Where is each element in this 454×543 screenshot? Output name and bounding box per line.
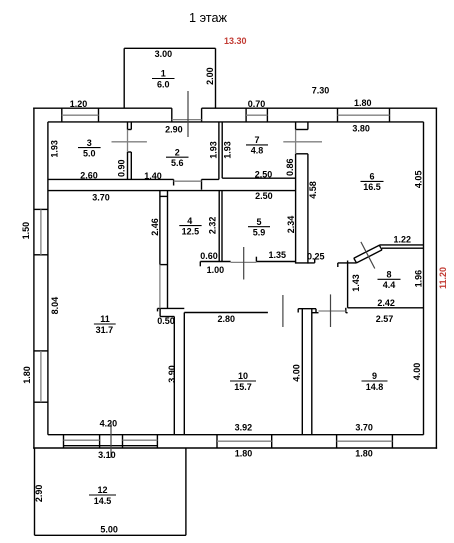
svg-text:1.93: 1.93	[49, 140, 59, 158]
svg-text:14.5: 14.5	[94, 496, 112, 506]
svg-text:6: 6	[369, 172, 374, 182]
porch room 1 walls	[124, 48, 215, 108]
garage door mid lines	[64, 439, 100, 441]
left wall window 1.80 caps	[34, 351, 48, 402]
wall below room 7	[222, 177, 295, 179]
wall rooms 11|4	[160, 191, 168, 309]
room 2 label	[166, 147, 189, 168]
dark door leaf strokes	[111, 91, 375, 458]
svg-text:1.80: 1.80	[235, 448, 253, 458]
svg-text:6.0: 6.0	[157, 79, 170, 89]
svg-text:2.42: 2.42	[377, 298, 395, 308]
door leaf rooms 7|6	[283, 141, 322, 143]
wall rooms 7,5 | 6	[296, 122, 308, 264]
svg-text:5.9: 5.9	[253, 228, 266, 238]
window 1.80 glazing top	[338, 114, 390, 116]
bottom wall rooms 4,5 with doors	[200, 257, 295, 267]
svg-text:1.20: 1.20	[70, 99, 88, 109]
room 6 label	[361, 172, 384, 193]
svg-text:5.6: 5.6	[171, 158, 184, 168]
diagonal door leaf room 8	[361, 242, 375, 269]
svg-text:5: 5	[256, 217, 261, 227]
dimension labels horizontal	[70, 49, 411, 535]
partition rooms 2|7	[219, 122, 222, 179]
window 1.80 glazing bottom room 9	[337, 440, 393, 442]
partition rooms 3|2	[128, 122, 132, 179]
svg-text:1.40: 1.40	[144, 171, 162, 181]
svg-text:5.0: 5.0	[83, 148, 96, 158]
svg-text:15.7: 15.7	[234, 382, 252, 392]
svg-text:1.50: 1.50	[21, 222, 31, 240]
garage door leaf	[110, 424, 112, 458]
svg-text:2.80: 2.80	[218, 314, 236, 324]
door sill room 5	[231, 261, 257, 263]
svg-text:3.70: 3.70	[92, 192, 110, 202]
svg-text:2.00: 2.00	[205, 67, 215, 85]
svg-text:3.80: 3.80	[352, 124, 370, 134]
svg-text:4.20: 4.20	[100, 419, 118, 429]
window 1.80 glazing bottom room 10	[217, 440, 272, 442]
svg-text:2.90: 2.90	[34, 485, 44, 503]
room 3 label	[78, 138, 101, 159]
svg-text:3.10: 3.10	[98, 450, 116, 460]
room 11 label	[94, 314, 116, 335]
room 9 door leaf	[330, 294, 332, 327]
room 5 door leaf	[243, 247, 245, 280]
bottom wall window caps room 10	[217, 435, 272, 448]
svg-text:3.90: 3.90	[167, 365, 177, 383]
window 1.20 glazing	[62, 114, 99, 116]
window 1.80 glazing left	[40, 351, 42, 402]
svg-text:1.93: 1.93	[209, 141, 219, 159]
room 8 left wall	[347, 261, 349, 308]
right outer wall	[424, 108, 437, 449]
svg-text:14.8: 14.8	[366, 382, 384, 392]
room 12 label	[89, 485, 116, 506]
svg-text:10: 10	[238, 371, 248, 381]
window 1.50 glazing left	[40, 209, 42, 254]
diagonal wall room 6 | 8	[354, 245, 382, 263]
svg-text:1.80: 1.80	[355, 448, 373, 458]
svg-text:0.90: 0.90	[117, 159, 127, 177]
room 4 label	[179, 216, 201, 237]
window 1.80 caps top wall	[338, 108, 390, 122]
wall below rooms 3,2 (line A with door gap)	[48, 179, 219, 189]
svg-text:2.34: 2.34	[286, 216, 296, 234]
svg-text:0.25: 0.25	[307, 251, 325, 261]
svg-text:4.4: 4.4	[383, 280, 396, 290]
porch door leaf	[187, 91, 189, 137]
svg-text:0.60: 0.60	[200, 251, 218, 261]
svg-text:7.30: 7.30	[312, 86, 330, 96]
room 7 label	[246, 135, 268, 156]
svg-text:1: 1	[161, 69, 166, 79]
svg-text:2.60: 2.60	[80, 170, 98, 180]
svg-text:2: 2	[175, 147, 180, 157]
svg-text:2.46: 2.46	[150, 218, 160, 236]
svg-text:1.96: 1.96	[413, 270, 423, 288]
corridor north wall right of room 6 opening	[296, 259, 357, 268]
door sill room 9	[319, 310, 346, 312]
svg-text:5.00: 5.00	[100, 525, 118, 535]
door jamb line rooms 7|6	[295, 130, 297, 154]
svg-text:2.50: 2.50	[255, 191, 273, 201]
svg-text:2.90: 2.90	[165, 124, 183, 134]
left outer wall	[34, 108, 48, 449]
room 10 label	[230, 371, 256, 392]
door leaf rooms 3|2	[112, 141, 147, 143]
svg-text:3.70: 3.70	[355, 423, 373, 433]
svg-text:4.00: 4.00	[292, 364, 302, 382]
svg-text:1.35: 1.35	[269, 250, 287, 260]
svg-text:7: 7	[254, 135, 259, 145]
room 10 top wall	[184, 312, 268, 314]
room 8 label	[378, 270, 401, 291]
svg-text:1.80: 1.80	[22, 366, 32, 384]
bottom outer wall	[33, 435, 437, 448]
svg-text:3.92: 3.92	[235, 423, 253, 433]
svg-text:9: 9	[372, 371, 377, 381]
svg-text:1.00: 1.00	[207, 265, 225, 275]
svg-text:2.57: 2.57	[376, 314, 394, 324]
svg-text:0.70: 0.70	[248, 99, 266, 109]
room 9 label	[362, 371, 388, 392]
porch door opening caps	[172, 108, 202, 122]
corridor south wall / room 11 jog	[158, 308, 185, 434]
svg-text:4.8: 4.8	[251, 146, 264, 156]
svg-text:1.22: 1.22	[394, 235, 412, 245]
svg-text:1.93: 1.93	[222, 141, 232, 159]
svg-text:2.32: 2.32	[208, 217, 218, 235]
wall 1.22 room 8 top	[379, 245, 423, 248]
svg-text:3.00: 3.00	[155, 49, 173, 59]
bottom wall window caps room 9	[337, 435, 393, 448]
svg-text:1 этаж: 1 этаж	[189, 11, 228, 25]
door sill rooms 2|4	[174, 180, 202, 182]
svg-text:12: 12	[97, 485, 107, 495]
svg-text:4.05: 4.05	[414, 171, 424, 189]
svg-text:16.5: 16.5	[363, 182, 381, 192]
gray glazing / openings	[41, 115, 393, 441]
svg-text:13.30: 13.30	[224, 36, 247, 46]
svg-text:4: 4	[187, 216, 192, 226]
svg-text:11.20: 11.20	[438, 267, 448, 289]
svg-text:0.50: 0.50	[157, 316, 175, 326]
svg-text:8: 8	[386, 270, 391, 280]
svg-text:4.00: 4.00	[412, 363, 422, 381]
svg-text:0.86: 0.86	[285, 158, 295, 176]
svg-text:1.43: 1.43	[351, 274, 361, 292]
svg-text:1.80: 1.80	[354, 98, 372, 108]
room 9 top wall	[312, 308, 348, 313]
open side wall 11 corridor	[159, 265, 161, 309]
room 10 door leaf	[282, 295, 284, 327]
room 1 label	[152, 69, 175, 90]
room 12 walls	[35, 448, 186, 535]
room 10 left wall	[183, 313, 185, 435]
window 0.70 glazing	[246, 114, 267, 116]
wall rooms 10|9	[298, 309, 316, 435]
svg-text:4.58: 4.58	[308, 181, 318, 199]
room 8 bottom wall	[348, 307, 424, 309]
room 5 label	[248, 217, 270, 238]
wall rooms 4|5	[219, 191, 222, 262]
svg-text:11: 11	[100, 314, 110, 324]
bottom wall garage door caps	[64, 435, 158, 448]
top line of rooms 11,4,5	[48, 190, 296, 192]
top outer wall	[33, 108, 437, 122]
svg-text:8.04: 8.04	[50, 297, 60, 315]
svg-text:3: 3	[87, 138, 92, 148]
dimension labels vertical	[21, 67, 424, 502]
room number labels (fractions)	[78, 69, 401, 506]
cap wall 11|4 top	[160, 195, 168, 197]
svg-text:2.50: 2.50	[255, 169, 273, 179]
svg-text:31.7: 31.7	[96, 325, 114, 335]
window 0.70 caps top wall	[246, 108, 267, 122]
door jamb line rooms 3|2	[127, 130, 129, 153]
window 1.20 caps top wall	[62, 108, 99, 122]
svg-text:12.5: 12.5	[182, 226, 200, 236]
left wall window 1.50 caps	[34, 209, 48, 254]
porch door sill	[172, 119, 202, 121]
